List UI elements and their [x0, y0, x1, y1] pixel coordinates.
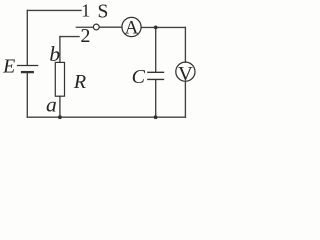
resistor R body	[55, 62, 64, 96]
svg-text:C: C	[132, 66, 146, 88]
wire resistor bottom to bottom rail	[59, 96, 61, 117]
svg-text:V: V	[178, 63, 193, 85]
svg-text:R: R	[73, 71, 86, 93]
ammeter A circle	[122, 17, 141, 36]
junction node bottom right (capacitor to rail)	[154, 115, 158, 119]
wire left lower (E branch)	[26, 73, 28, 117]
svg-text:2: 2	[81, 25, 91, 47]
switch S pivot circle	[93, 24, 99, 30]
wire top from battery branch to switch contact 1	[27, 9, 81, 11]
switch S arm	[76, 26, 94, 28]
svg-text:S: S	[97, 2, 108, 23]
wire top-right from node to ammeter	[141, 26, 185, 28]
wire contact 2 down to resistor	[59, 37, 61, 63]
svg-text:E: E	[2, 55, 15, 77]
junction node bottom left (resistor to rail)	[58, 115, 62, 119]
svg-text:a: a	[46, 93, 57, 117]
capacitor C top plate	[147, 71, 164, 73]
wire right lower (voltmeter bottom lead)	[184, 81, 186, 117]
svg-text:1: 1	[81, 0, 90, 20]
wire left upper (E branch)	[26, 10, 28, 64]
svg-text:A: A	[125, 17, 139, 38]
wire right upper (voltmeter top lead)	[184, 27, 186, 62]
battery E plates	[17, 66, 38, 73]
svg-text:b: b	[49, 42, 60, 66]
wire bottom	[27, 116, 185, 118]
junction node top (capacitor tap)	[154, 26, 158, 30]
wire ammeter to switch pivot	[99, 26, 122, 28]
capacitor C bottom plate	[147, 78, 164, 80]
wire capacitor top lead	[155, 27, 157, 71]
wire switch contact 2 horizontal	[60, 36, 79, 38]
voltmeter V circle	[176, 62, 195, 81]
wire capacitor bottom lead	[155, 80, 157, 117]
